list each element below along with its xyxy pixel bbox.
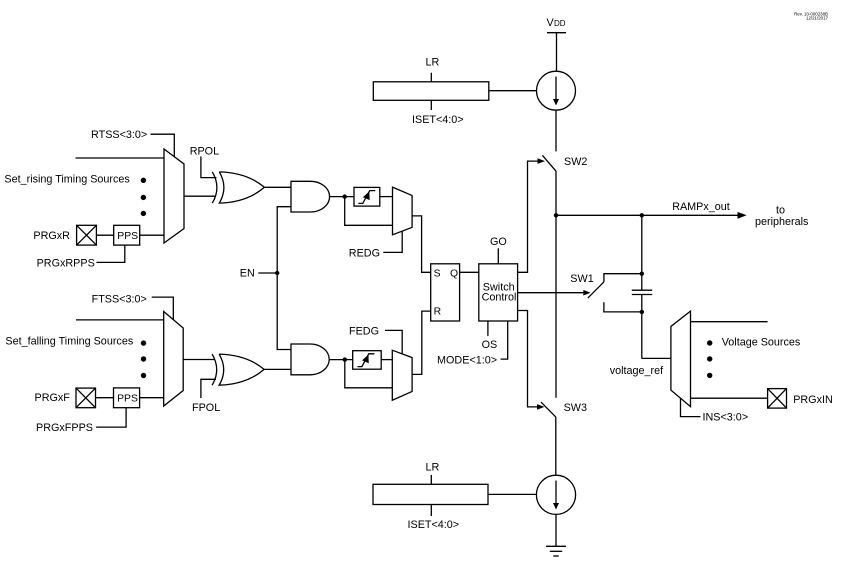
wire FPOL to XOR2 <box>201 379 216 398</box>
resistor LR top <box>373 82 489 101</box>
wire ED1 out <box>380 196 393 198</box>
wire LR to current source <box>489 90 537 92</box>
wire RPOL to XOR1 <box>201 157 217 178</box>
svg-text:PRGxFPPS: PRGxFPPS <box>36 422 93 434</box>
svg-text:PRGxF: PRGxF <box>35 392 71 404</box>
switch SW3 blade <box>541 402 556 417</box>
switch SW2 blade <box>542 155 555 171</box>
pad PRGxR x-box <box>77 225 97 245</box>
node EN junction <box>275 271 279 275</box>
wire MUX5 top input <box>691 321 768 323</box>
node SW1 bottom junction <box>640 310 644 314</box>
label to peripherals <box>755 204 809 228</box>
svg-text:PPS: PPS <box>117 231 138 242</box>
svg-text:FPOL: FPOL <box>192 402 220 414</box>
wire EN label stub <box>258 272 277 274</box>
svg-text:Control: Control <box>482 292 517 304</box>
rev text top-right <box>794 11 828 20</box>
arrow SW3 control <box>537 404 544 410</box>
wire MUX3 out to S <box>412 216 431 272</box>
wire LR label tick bottom <box>430 475 432 484</box>
block PPS falling <box>114 388 140 408</box>
wire cap branch upper <box>641 215 643 290</box>
wire REDG select <box>383 231 402 252</box>
node AND1 output junction <box>343 194 347 198</box>
wire FTSS select into MUX2 <box>152 297 174 320</box>
svg-text:voltage_ref: voltage_ref <box>610 365 664 377</box>
wire MUX1 top input <box>76 157 165 159</box>
label VDD <box>547 17 566 29</box>
wire SW3 control from switch control <box>518 311 538 407</box>
wire PRGxRPPS to PPS <box>96 245 124 262</box>
wire GO input <box>497 248 499 263</box>
svg-text:SW2: SW2 <box>564 156 587 168</box>
block switch control U1 <box>479 264 518 321</box>
svg-text:PPS: PPS <box>117 394 138 405</box>
svg-text:RTSS<3:0>: RTSS<3:0> <box>91 129 147 141</box>
svg-text:FTSS<3:0>: FTSS<3:0> <box>92 293 147 305</box>
svg-text:INS<3:0>: INS<3:0> <box>703 412 749 424</box>
wire LR bottom to current sink <box>488 493 536 495</box>
svg-text:Voltage Sources: Voltage Sources <box>722 336 801 348</box>
and-gate AND1 <box>291 181 330 212</box>
dots MUX1 inputs <box>141 178 146 216</box>
node capacitor top junction <box>640 213 644 217</box>
wire PRGxF to PPS <box>96 397 114 399</box>
block edge-detector ED1 <box>354 187 380 206</box>
svg-text:SW3: SW3 <box>564 402 587 414</box>
wire AND2 bypass <box>345 360 393 388</box>
wire PPS to MUX1 <box>140 234 164 236</box>
dots MUX2 inputs <box>141 340 146 378</box>
svg-text:ISET<4:0>: ISET<4:0> <box>408 519 460 531</box>
wire XOR2 out to AND2 <box>264 368 291 370</box>
svg-text:SW1: SW1 <box>570 273 593 285</box>
wire MUX2 output <box>183 359 215 361</box>
wire current source to SW2 <box>555 110 557 151</box>
power VDD rail bar <box>547 32 566 34</box>
svg-text:RPOL: RPOL <box>190 146 219 158</box>
wire voltage_ref <box>642 357 671 359</box>
svg-text:REDG: REDG <box>349 248 380 260</box>
svg-text:LR: LR <box>426 462 440 474</box>
svg-text:ISET<4:0>: ISET<4:0> <box>412 114 464 126</box>
svg-text:GO: GO <box>490 236 507 248</box>
svg-text:OS: OS <box>482 339 498 351</box>
wire VDD to current source <box>556 33 558 71</box>
capacitor C1 <box>632 290 652 294</box>
wire LR label tick top <box>430 73 432 82</box>
svg-text:DD: DD <box>554 19 566 28</box>
node SW1 top junction <box>640 272 644 276</box>
wire ED2 out <box>381 359 392 361</box>
arrow SW2 control <box>538 158 546 164</box>
wire OS stub <box>487 321 489 336</box>
dots MUX5 inputs <box>707 340 712 378</box>
svg-text:Set_falling Timing Sources: Set_falling Timing Sources <box>5 336 133 348</box>
switch SW1 top contact <box>604 274 642 282</box>
wire EN vertical <box>277 207 291 350</box>
wire RTSS select into MUX1 <box>151 134 175 157</box>
wire AND1 bypass <box>345 197 393 226</box>
pad PRGxF x-box <box>76 388 96 408</box>
mux MUX5 voltage sources <box>671 311 691 407</box>
svg-text:R: R <box>434 307 442 318</box>
mux MUX3 rising edge select <box>393 187 413 235</box>
svg-text:PRGxR: PRGxR <box>33 230 70 242</box>
wire MUX1 output <box>184 195 215 197</box>
switch SW1 bottom contact <box>604 302 642 312</box>
mux MUX2 falling timing sources <box>164 312 184 407</box>
wire PRGxFPPS to PPS <box>96 408 126 427</box>
wire AND2 output <box>329 359 353 361</box>
wire current sink to ground <box>555 514 557 546</box>
current-source I1 <box>537 71 576 110</box>
switch SW1 blade <box>588 282 604 298</box>
svg-text:Set_rising Timing Sources: Set_rising Timing Sources <box>4 173 130 185</box>
wire SW3 to current sink <box>555 417 557 475</box>
pad PRGxIN x-box <box>768 389 787 409</box>
wire PRGxR to PPS <box>96 234 113 236</box>
ground <box>546 546 566 556</box>
wire ISET tick top <box>430 100 432 110</box>
wire SW1 control <box>518 292 585 294</box>
svg-text:Q: Q <box>450 269 458 280</box>
wire PPS to MUX2 <box>140 397 164 399</box>
mux MUX4 falling edge select <box>392 350 412 400</box>
resistor LR bottom <box>373 484 488 504</box>
wire MODE input <box>501 321 508 359</box>
svg-text:MODE<1:0>: MODE<1:0> <box>437 355 497 367</box>
svg-text:FEDG: FEDG <box>349 326 379 338</box>
arrow RAMPx_out <box>738 212 747 219</box>
wire Q to switch control <box>460 271 479 273</box>
current-sink I2 <box>536 475 575 514</box>
arrow SW1 control <box>583 290 590 296</box>
svg-text:PRGxIN: PRGxIN <box>793 394 833 406</box>
mux MUX1 rising timing sources <box>164 149 184 243</box>
block PPS rising <box>114 225 140 245</box>
wire INS select <box>681 398 701 416</box>
xor XOR1 rising polarity <box>212 172 264 203</box>
and-gate AND2 <box>291 344 329 375</box>
latch SR <box>431 264 460 321</box>
wire cap branch lower <box>641 295 643 359</box>
wire FEDG select <box>385 330 402 354</box>
node RAMPx junction <box>554 213 558 217</box>
xor XOR2 falling polarity <box>212 354 264 385</box>
node AND2 output junction <box>343 357 347 361</box>
wire SW2 to output node <box>555 171 557 398</box>
wire MUX2 top input <box>76 319 164 321</box>
wire RAMPx_out <box>556 214 740 216</box>
wire MUX4 out to R <box>412 311 431 374</box>
svg-text:12/21/2017: 12/21/2017 <box>806 16 829 21</box>
svg-text:EN: EN <box>240 268 255 280</box>
svg-text:LR: LR <box>426 57 440 69</box>
wire MUX5 bottom input <box>691 397 768 399</box>
wire SW2 control from switch control <box>518 161 539 272</box>
svg-text:to: to <box>776 204 785 216</box>
block edge-detector ED2 <box>353 351 382 370</box>
svg-text:RAMPx_out: RAMPx_out <box>672 201 730 213</box>
svg-text:S: S <box>434 269 441 280</box>
wire XOR1 out to AND1 <box>264 186 291 188</box>
svg-text:PRGxRPPS: PRGxRPPS <box>37 258 95 270</box>
wire AND1 output <box>330 196 354 198</box>
svg-text:peripherals: peripherals <box>755 216 809 228</box>
wire ISET tick bottom <box>430 505 432 517</box>
